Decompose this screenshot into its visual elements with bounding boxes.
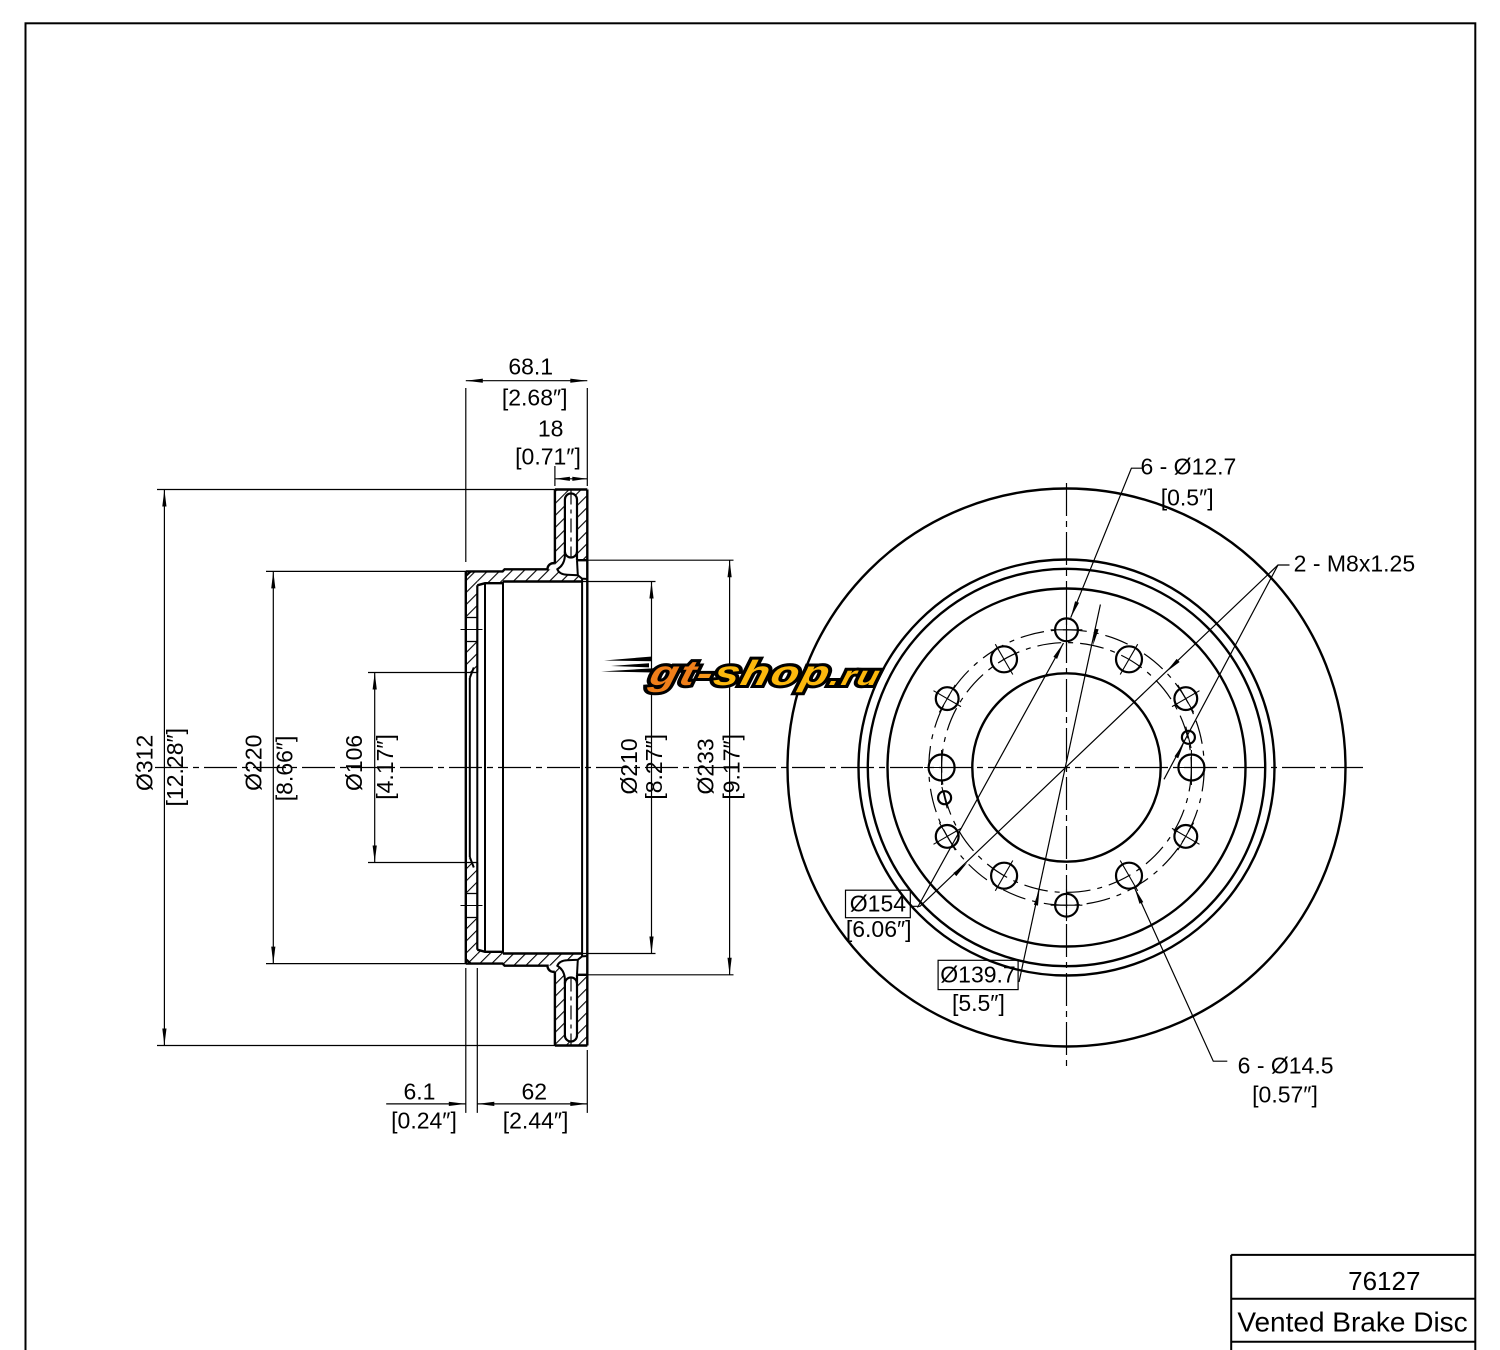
- leader 6-O14.5: [1134, 888, 1227, 1062]
- bore cylinder edge: [469, 678, 471, 857]
- svg-text:Vented Brake Disc: Vented Brake Disc: [1237, 1307, 1467, 1338]
- watermark logo gt-shop.ru: [601, 653, 887, 692]
- dim O210 extension lines: [582, 581, 655, 583]
- wheel stud hole O14.5 #6: [1116, 646, 1142, 672]
- hole O12.7 #4: [936, 687, 959, 710]
- wheel stud hole O14.5 #5: [991, 646, 1017, 672]
- leader O139.7: [1019, 605, 1100, 983]
- dim 18 line: [555, 478, 587, 480]
- svg-text:[4.17″]: [4.17″]: [372, 734, 398, 800]
- vent slot and pocket (bottom): [557, 956, 586, 1041]
- dim O312 extension lines: [157, 489, 555, 491]
- fillet relief (bottom): [548, 966, 555, 972]
- hat top face (top): [466, 563, 555, 571]
- circle O233: [859, 560, 1275, 976]
- bore bottom edge: [466, 862, 478, 864]
- vent slot outline (top): [565, 493, 577, 560]
- vent slot outline (bottom): [565, 975, 577, 1042]
- wheel stud hole O14.5 #4: [929, 755, 955, 781]
- flange right face (through bore): [476, 673, 478, 863]
- svg-text:[0.57″]: [0.57″]: [1252, 1082, 1318, 1108]
- dim O220 line: [272, 571, 274, 963]
- dim O233 arrows: [728, 560, 732, 577]
- flange corner chamfer (bottom): [466, 959, 471, 964]
- svg-text:6 - Ø12.7: 6 - Ø12.7: [1140, 454, 1236, 480]
- band left face (top): [554, 490, 556, 564]
- dim 68.1 arrows: [466, 379, 483, 383]
- svg-text:[9.17″]: [9.17″]: [718, 734, 744, 800]
- drum floor circle edge: [581, 579, 583, 957]
- svg-text:[6.06″]: [6.06″]: [846, 916, 912, 942]
- label O139.7 box: [938, 960, 1018, 989]
- bore chamfer (bottom): [470, 857, 474, 867]
- dim O233 extension lines: [587, 559, 733, 561]
- boss step circle edge: [484, 583, 486, 952]
- O154 second leader through bore: [918, 643, 1064, 908]
- svg-text:[8.66″]: [8.66″]: [272, 736, 298, 802]
- circle O220: [868, 569, 1265, 966]
- dim 18 extension line: [554, 466, 556, 486]
- svg-text:Ø220: Ø220: [241, 735, 267, 791]
- disc outer edge (bottom): [555, 1044, 587, 1046]
- svg-text:[5.5″]: [5.5″]: [952, 990, 1005, 1016]
- dim 6.1 line: [386, 1103, 466, 1105]
- bore circle O106: [972, 673, 1160, 861]
- pocket boundary (bottom): [557, 956, 587, 979]
- flange bolt hole walls (bottom): [466, 917, 478, 919]
- dim O106 extension lines: [368, 672, 466, 674]
- svg-text:[2.68″]: [2.68″]: [502, 385, 568, 411]
- bore top edge: [466, 672, 478, 674]
- svg-text:68.1: 68.1: [508, 354, 553, 380]
- boss bottom edge (top): [477, 583, 502, 585]
- dim 6.1 extension lines: [465, 968, 467, 1113]
- wheel stud hole O14.5 #2: [1116, 863, 1142, 889]
- flange right face (lower): [476, 863, 478, 950]
- flange right face (upper): [476, 585, 478, 672]
- dim 62 line: [477, 1103, 587, 1105]
- svg-text:18: 18: [538, 416, 564, 442]
- wheel stud hole O14.5 #3: [991, 863, 1017, 889]
- dim O106 line: [374, 673, 376, 863]
- dim O106 arrows: [373, 673, 377, 690]
- flange bolt hole centerline (top): [461, 629, 483, 631]
- dim O312 line: [163, 490, 165, 1046]
- wheel stud hole O14.5 #1: [1178, 755, 1204, 781]
- service hole M8 #1: [1182, 731, 1195, 744]
- title block: [1231, 1254, 1475, 1256]
- dim 68.1 line: [466, 380, 588, 382]
- svg-text:[0.24″]: [0.24″]: [391, 1108, 457, 1134]
- bolt circle O154: [929, 630, 1204, 905]
- vent slot and pocket (top): [557, 493, 586, 578]
- boss bottom edge (bottom): [477, 950, 502, 952]
- svg-text:Ø233: Ø233: [693, 738, 719, 794]
- dim 18 arrows: [555, 477, 570, 481]
- svg-text:gt-shop.ru: gt-shop.ru: [645, 653, 887, 692]
- vent wall root (bottom): [576, 960, 579, 975]
- dim O210 line: [651, 582, 653, 954]
- svg-text:6.1: 6.1: [404, 1079, 436, 1105]
- disc right face: [586, 490, 588, 1046]
- dim O220 arrows: [271, 571, 275, 588]
- drum surface (bottom): [503, 952, 582, 954]
- hole O12.7 #2: [1055, 894, 1078, 917]
- vent slot bottom cap (bottom): [565, 977, 577, 983]
- flange bolt hole walls (top): [466, 617, 478, 619]
- vent wall root (top): [576, 560, 579, 575]
- svg-text:[0.71″]: [0.71″]: [515, 444, 581, 470]
- svg-text:[2.44″]: [2.44″]: [503, 1108, 569, 1134]
- service hole M8 #2: [938, 791, 951, 804]
- main horizontal centerline: [155, 767, 1363, 769]
- svg-text:Ø106: Ø106: [341, 735, 367, 791]
- svg-text:62: 62: [522, 1079, 548, 1105]
- svg-text:6 - Ø14.5: 6 - Ø14.5: [1238, 1053, 1334, 1079]
- vent centerline (bottom): [570, 978, 572, 1045]
- outboard plate inner edge (top): [577, 559, 587, 561]
- dim O210 arrows: [649, 582, 653, 599]
- hole O12.7 #3: [936, 825, 959, 848]
- disc outer edge (top): [555, 488, 587, 490]
- svg-text:Ø139.7: Ø139.7: [940, 962, 1015, 988]
- outboard plate inner edge (bottom): [577, 974, 587, 976]
- outer circle O312: [788, 489, 1346, 1047]
- svg-text:Ø312: Ø312: [131, 735, 157, 791]
- hole O12.7 #1: [1174, 825, 1197, 848]
- svg-text:2 - M8x1.25: 2 - M8x1.25: [1294, 551, 1415, 577]
- dim 6.1 arrow: [449, 1102, 466, 1106]
- drum surface (top): [503, 580, 582, 582]
- drum start circle edge: [502, 582, 504, 954]
- svg-text:[8.27″]: [8.27″]: [641, 734, 667, 800]
- vent slot bottom cap (top): [565, 552, 577, 558]
- pocket boundary (top): [557, 557, 587, 580]
- svg-text:Ø154: Ø154: [850, 891, 906, 917]
- flange bolt hole centerline (bottom): [461, 905, 483, 907]
- flange corner chamfer (top): [466, 571, 471, 576]
- O154 arrows on bolt circle: [1166, 659, 1180, 672]
- label O154 box: [846, 890, 911, 918]
- bolt circle O139.7: [942, 643, 1192, 893]
- dim O312 arrows: [162, 490, 166, 507]
- flange left face: [465, 571, 467, 963]
- fillet relief (top): [548, 563, 555, 569]
- svg-text:[0.5″]: [0.5″]: [1161, 485, 1214, 511]
- dim 62 arrows: [477, 1102, 494, 1106]
- vent centerline (top): [570, 491, 572, 558]
- svg-text:76127: 76127: [1348, 1266, 1420, 1296]
- band left face (bottom): [554, 972, 556, 1046]
- hole O12.7 #5: [1055, 618, 1078, 641]
- section hatching: [466, 571, 478, 617]
- circle O200 drum floor: [888, 589, 1246, 947]
- leader O154 and M8 line: [911, 565, 1290, 906]
- hat bottom face (bottom): [466, 964, 555, 972]
- svg-text:Ø210: Ø210: [616, 738, 642, 794]
- bore chamfer (top): [470, 668, 474, 678]
- leader 2-M8x1.25: [1164, 565, 1278, 779]
- leader 6-O12.7: [1071, 468, 1143, 618]
- dim 68.1 extension lines: [465, 388, 467, 562]
- O139.7 arrows on bolt circle: [1093, 629, 1099, 646]
- hole O12.7 #6: [1174, 687, 1197, 710]
- right view vertical centerline: [1066, 483, 1068, 1069]
- dim O220 extension lines: [266, 570, 470, 572]
- dim O233 line: [729, 560, 731, 975]
- svg-text:[12.28″]: [12.28″]: [162, 728, 188, 806]
